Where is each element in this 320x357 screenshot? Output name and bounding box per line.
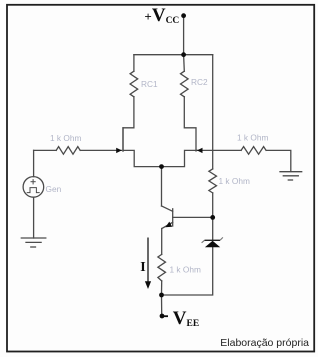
wire [80, 149, 121, 151]
node dot VEE [160, 314, 165, 319]
wire [123, 97, 134, 151]
resistor R2 1 k Ohm [241, 147, 266, 155]
arrowhead Q3 emitter [165, 222, 172, 228]
junction dot base Q3 [210, 215, 215, 220]
source Gen [23, 177, 44, 198]
ground right [280, 172, 302, 180]
transistor Q1 [123, 128, 162, 167]
wire [197, 149, 241, 151]
node dot VCC [181, 13, 186, 18]
wire [34, 149, 57, 151]
arrowhead Q2 base [197, 148, 203, 153]
resistor R3 1 k Ohm [209, 169, 217, 193]
wire [134, 54, 213, 56]
svg-text:RC2: RC2 [191, 77, 208, 87]
ground left [21, 238, 46, 247]
resistor R1 1 k Ohm [56, 147, 80, 155]
wire [33, 150, 35, 176]
resistor R4 1 k Ohm [158, 254, 166, 281]
junction dot bottom rail [159, 293, 164, 298]
wire [33, 197, 35, 238]
svg-text:1 k Ohm: 1 k Ohm [237, 132, 268, 142]
wire [161, 295, 163, 314]
arrowhead Q1 base [116, 148, 122, 153]
wire [212, 217, 214, 240]
wire [183, 55, 186, 71]
wire [183, 16, 185, 55]
transistor Q2 [162, 150, 197, 166]
svg-text:1 k Ohm: 1 k Ohm [170, 265, 201, 275]
resistor RC2 [181, 71, 189, 97]
svg-text:1 k Ohm: 1 k Ohm [219, 176, 250, 186]
wire [162, 247, 213, 295]
current arrow I [145, 238, 151, 290]
wire [161, 281, 163, 295]
junction dot top [181, 52, 186, 57]
wire [161, 229, 163, 255]
wire [184, 97, 196, 151]
wire [266, 150, 291, 171]
wire [133, 55, 135, 71]
svg-text:Elaboração própria: Elaboração própria [220, 337, 309, 349]
junction dot emitters [159, 164, 164, 169]
svg-text:RC1: RC1 [141, 79, 158, 89]
minus tick VEE [164, 315, 168, 317]
transistor Q3 [162, 206, 213, 229]
wire [212, 55, 214, 169]
wire [212, 193, 214, 218]
wire [161, 167, 163, 206]
resistor RC1 [130, 71, 138, 97]
svg-text:I: I [140, 260, 145, 275]
diode D1 zener [202, 237, 223, 247]
svg-text:Gen: Gen [46, 184, 62, 194]
svg-text:1 k Ohm: 1 k Ohm [50, 133, 81, 143]
